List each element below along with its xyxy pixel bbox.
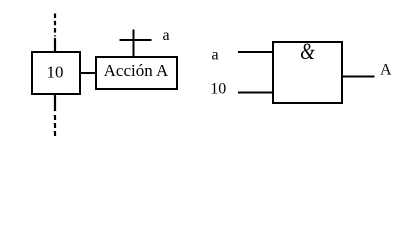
svg-text:Acción A: Acción A [104, 61, 169, 80]
svg-text:a: a [163, 27, 170, 44]
svg-text:&: & [300, 38, 315, 64]
svg-text:10: 10 [47, 63, 64, 82]
svg-text:10: 10 [210, 81, 226, 98]
svg-text:a: a [212, 47, 219, 64]
svg-text:A: A [380, 62, 392, 79]
